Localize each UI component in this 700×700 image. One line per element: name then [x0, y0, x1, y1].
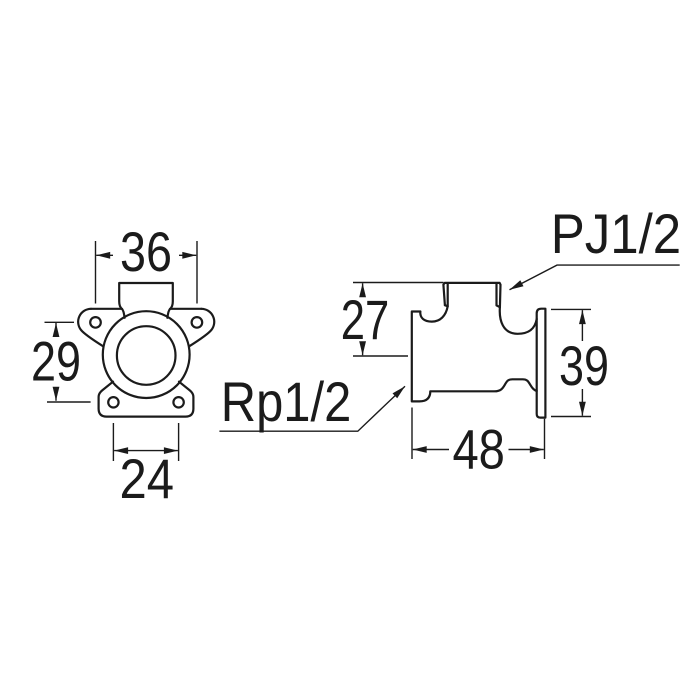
side view: right cove between stub and rear flange — [500, 307, 537, 334]
side view: front flange edge and body bottom outline — [412, 312, 537, 402]
dim 29: dimension line — [55, 323, 57, 401]
dim 27: extension lines — [353, 283, 444, 357]
svg-text:36: 36 — [120, 220, 172, 283]
svg-text:Rp1/2: Rp1/2 — [221, 370, 351, 433]
svg-text:39: 39 — [559, 334, 609, 397]
dim 39: dimension line — [581, 310, 583, 416]
svg-text:27: 27 — [341, 288, 390, 351]
label PJ1/2: underline and leader line — [510, 265, 680, 290]
front view: right ear bolt hole — [192, 317, 203, 328]
dim 24: extension lines — [113, 423, 178, 461]
svg-text:PJ1/2: PJ1/2 — [551, 202, 682, 265]
svg-text:48: 48 — [452, 417, 505, 480]
dim 36: extension lines — [96, 241, 198, 304]
dim 36: dimension line — [96, 254, 196, 256]
side view: rear flange outline — [537, 309, 546, 418]
front view: boss outer circle — [103, 311, 190, 398]
front view: right ear outline — [189, 309, 214, 347]
front view: left ear top edge — [91, 308, 122, 310]
front view: bore inner circle — [117, 326, 176, 385]
front view: bottom-right bolt hole — [173, 397, 183, 407]
side view: stub thread root line left — [445, 284, 448, 306]
front view: left ear bolt hole — [90, 317, 101, 328]
front view: right ear top edge — [170, 308, 201, 310]
front view: bottom plate outline — [99, 382, 194, 417]
svg-text:29: 29 — [31, 329, 81, 392]
dim 39: extension lines — [551, 309, 591, 416]
arrowheads — [53, 252, 586, 454]
front view: left ear outline — [78, 309, 103, 347]
side view: left cove between flange and stub — [420, 306, 447, 321]
dim 24: dimension line — [114, 450, 178, 452]
dim 48: extension lines — [412, 408, 545, 460]
dim 48: dimension line — [413, 449, 544, 451]
dim 27: dimension line — [362, 283, 364, 355]
side view: stub thread root line right — [497, 284, 500, 307]
side view: threaded stub outline with chamfers — [443, 283, 500, 307]
dim 29: extension lines — [45, 322, 91, 402]
label Rp1/2: underline and leader line — [219, 386, 405, 431]
front view: top socket stub outline — [119, 283, 173, 318]
front view: bottom-left bolt hole — [108, 397, 118, 407]
svg-text:24: 24 — [120, 447, 175, 510]
